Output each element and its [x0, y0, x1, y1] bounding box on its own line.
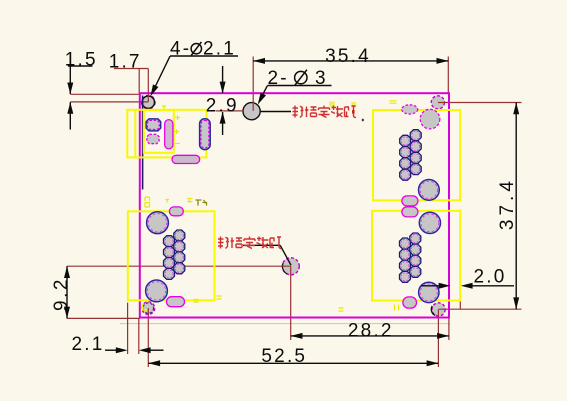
svg-text:52.5: 52.5 [261, 346, 307, 367]
connector J3 outline (bottom-left) [128, 211, 215, 300]
ext line 2.1 left (component edge, down) [127, 303, 129, 354]
ext line 1.5 top (board top edge, to left) [70, 93, 139, 95]
J1 big circle pad bottom [419, 180, 440, 201]
dim 35.4 line [253, 60, 448, 62]
J2 pin pad cluster [400, 233, 421, 282]
label new mounting hole B (red CJK) [218, 237, 282, 249]
ext line 52.5 right (hole BR center, down) [437, 309, 439, 367]
J2 stadium pad bottom [403, 297, 417, 308]
svg-text:2.9: 2.9 [206, 95, 239, 116]
ext line 2.9 (hole A center, horizontal) [216, 110, 244, 112]
connector J2 outline (bottom-right) [372, 211, 460, 301]
svg-text:2.1: 2.1 [71, 334, 104, 355]
phi symbol of 4-o2.1 [191, 42, 201, 56]
ext line 1.5 bottom (hole TL center, to left) [70, 101, 148, 103]
ext line 37.4 bottom (hole BR center, to right) [439, 308, 522, 310]
svg-text:9.2: 9.2 [51, 277, 72, 311]
connector J1 outline (top-right) [373, 110, 460, 200]
connector P1 outline (top-left) [127, 110, 206, 158]
silkscreen trace line inside left board edge [142, 96, 144, 190]
dim 2.0 line [421, 285, 439, 287]
tiny silkscreen marks (yellow) [145, 101, 399, 311]
svg-text:35.4: 35.4 [325, 46, 371, 67]
stadium pad on J2 top edge [402, 207, 418, 217]
dim 37.4 line [515, 103, 517, 310]
J2 marks [395, 305, 399, 311]
mounting hole BR (2.1) [432, 303, 445, 316]
J3 big circle pad top [147, 212, 169, 234]
dim 2.9 line and arrows [222, 66, 224, 93]
svg-text:2-: 2- [268, 68, 289, 89]
J3 marks [145, 197, 150, 207]
dim 1.7 bar [114, 68, 148, 70]
phi symbol of 2-o3 [295, 70, 307, 86]
leader new hole A label [260, 111, 291, 113]
svg-text:3: 3 [315, 68, 328, 89]
svg-text:2.0: 2.0 [473, 267, 506, 288]
ext line 2.0 right vertical [459, 287, 461, 309]
J3 pin pad cluster [164, 230, 185, 279]
new mounting hole B (ø3 bottom) [282, 258, 299, 275]
ext line 2.1 right (board left edge, down) [138, 318, 140, 354]
mounting hole TR (2.1) [431, 96, 444, 109]
P1 octagon pad 2 [147, 134, 159, 143]
leader 4-phi2.1 [155, 56, 170, 87]
leader 2-phi3 [260, 86, 267, 99]
ext line 52.5 left (hole BL center, down) [147, 308, 149, 367]
ext line 9.2 top (hole B center, long horizontal) [67, 265, 291, 267]
J2 big circle pad bottom [419, 282, 439, 302]
P1 octagon pad 1 [146, 119, 161, 131]
ext line 28.2 right (board right corner, down) [448, 318, 450, 340]
ext line 37.4 top (hole TR center, to right) [438, 102, 522, 104]
small yellow bracket near BL hole [142, 304, 147, 311]
label new mounting hole A (red CJK) [293, 101, 364, 121]
mounting hole BL (2.1) [142, 302, 155, 315]
ext line 35.4 right (board right edge, up) [447, 57, 449, 94]
stadium pad on J1 bottom edge [402, 196, 418, 206]
mounting hole TL (2.1) [141, 95, 155, 109]
J1 top ellipse pad [402, 105, 418, 114]
new mounting hole A (ø3 top) [243, 103, 260, 120]
svg-text:1.7: 1.7 [109, 52, 142, 73]
J3 stadium pad bottom [167, 297, 185, 307]
J2 big circle pad top [419, 212, 440, 233]
dim 2.1 tails [105, 349, 117, 351]
svg-text:4-: 4- [170, 39, 191, 60]
svg-text:37.4: 37.4 [497, 177, 518, 230]
board outline [140, 93, 449, 317]
J1 big circle pad top [420, 109, 440, 129]
svg-text:1.5: 1.5 [65, 49, 98, 70]
dim 1.5 line and arrows [68, 65, 93, 67]
dim 9.2 line [66, 266, 68, 318]
ext line 28.2 left (hole B center, down) [290, 266, 292, 340]
svg-text:28.2: 28.2 [348, 320, 394, 341]
ext line 1.7 left (board left edge, up) [138, 69, 140, 94]
tiny yellow silk squares near label [329, 101, 335, 107]
ext line 35.4 left (hole A center, up) [252, 57, 254, 111]
dim 28.2 line [291, 335, 449, 337]
dim 52.5 line [148, 362, 438, 364]
tiny olive mark [196, 200, 207, 206]
leader new hole B label [243, 244, 280, 246]
arrowheads [67, 83, 73, 95]
P1 bottom horizontal stadium pad [172, 155, 200, 163]
P1 right vertical pad [200, 119, 211, 150]
ext line 1.7 right (hole TL center, up) [147, 69, 149, 102]
faint construction line below board bottom [120, 323, 450, 325]
P1 marks [162, 106, 166, 109]
P1 vertical stadium pad [165, 120, 173, 149]
J1 mark [390, 101, 397, 103]
svg-text:2.1: 2.1 [203, 39, 236, 60]
J3 stadium pad on top edge [169, 207, 183, 216]
ext line 9.2 bottom (board bottom edge, to left) [67, 317, 140, 319]
J3 big circle pad bottom [146, 280, 168, 302]
J1 pin pad cluster [400, 130, 422, 181]
